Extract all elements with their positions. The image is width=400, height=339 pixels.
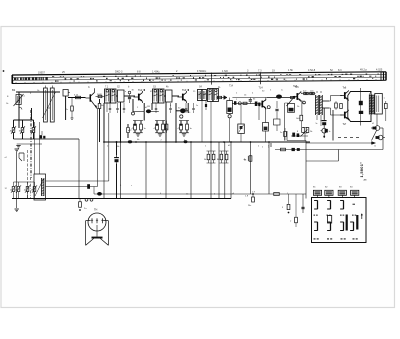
svg-text:c: c (131, 185, 132, 187)
svg-text:F 504Kc: F 504Kc (197, 70, 207, 73)
svg-text:1 NO: 1 NO (222, 70, 228, 73)
svg-text:TH: TH (94, 209, 98, 212)
svg-text:Ts3: Ts3 (182, 88, 187, 92)
svg-text:1.43Kc: 1.43Kc (152, 70, 161, 73)
svg-text:1c: 1c (329, 131, 331, 133)
svg-text:1c: 1c (281, 90, 283, 92)
svg-text:8.3: 8.3 (338, 69, 342, 72)
svg-text:8 8: 8 8 (137, 71, 141, 74)
svg-text:1,5801°: 1,5801° (359, 162, 364, 178)
svg-text:4 52-8: 4 52-8 (308, 69, 316, 72)
svg-text:Ts6: Ts6 (343, 87, 347, 90)
svg-text:1c: 1c (66, 109, 68, 111)
svg-text:B2: B2 (12, 88, 16, 92)
svg-text:49.2 p: 49.2 p (360, 69, 368, 72)
svg-text:TL5: TL5 (295, 86, 300, 89)
svg-text:24c: 24c (248, 205, 251, 207)
svg-text:4.025: 4.025 (376, 68, 383, 71)
svg-text:Ts7: Ts7 (343, 123, 347, 126)
svg-text:1 5b: 1 5b (288, 69, 293, 72)
svg-text:5c: 5c (316, 123, 318, 125)
svg-text:Ts2: Ts2 (138, 88, 143, 92)
svg-text:}: } (268, 144, 269, 148)
svg-text:4c: 4c (24, 190, 26, 192)
svg-text:DKD 3: DKD 3 (115, 71, 123, 74)
svg-text:7.3: 7.3 (258, 69, 262, 72)
svg-text:1M: 1M (147, 106, 150, 108)
svg-text:19557: 19557 (38, 71, 46, 74)
svg-text:TL4: TL4 (259, 87, 264, 90)
svg-text:10c: 10c (15, 190, 18, 192)
